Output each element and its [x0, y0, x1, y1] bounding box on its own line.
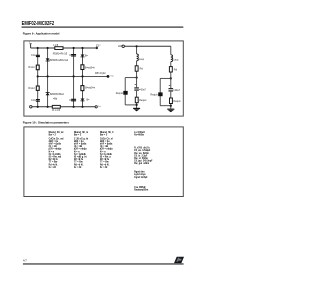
svg-text:dB2 = tju_: dB2 = tju_ — [74, 140, 86, 143]
svg-text:Rsl: Rsl — [140, 69, 144, 71]
svg-text:B=: B= — [85, 56, 89, 58]
svg-text:=42w7: =42w7 — [173, 90, 181, 92]
svg-text:Rsl: Rsl — [174, 69, 178, 71]
resistor R3 — [81, 65, 84, 70]
svg-text:dAF = tjuda: dAF = tjuda — [100, 143, 113, 146]
svg-text:L1 B: L1 B — [53, 44, 58, 47]
capacitor C2 — [36, 100, 40, 102]
bottom right terminal — [95, 106, 97, 108]
capacitor Cequiv1 — [134, 88, 139, 90]
bottom left terminal — [30, 106, 32, 108]
mic element left leg 2 — [159, 78, 161, 105]
right leg 1 wire — [136, 78, 138, 108]
header rule — [22, 27, 184, 28]
svg-text:dAF = tjuda: dAF = tjuda — [49, 143, 62, 146]
svg-text:R8=4=j2d: R8=4=j2d — [95, 72, 106, 75]
svg-text:EMIF02-MIC02F2: EMIF02-MIC02F2 — [22, 21, 55, 27]
resistor R2 — [36, 86, 39, 90]
branch MIC1 — [116, 45, 147, 111]
svg-text:C1w: C1w — [31, 100, 36, 102]
figure 9 frame — [24, 41, 183, 116]
svg-text:dAF = tjuda: dAF = tjuda — [74, 143, 87, 146]
bottom wire — [32, 106, 95, 108]
svg-text:Rgnd dim: Rgnd dim — [134, 172, 144, 174]
svg-text:=12: =12 — [69, 100, 74, 102]
split junction 1 — [136, 77, 138, 79]
svg-text:fu = 2d: fu = 2d — [49, 167, 57, 169]
svg-text:Requiv: Requiv — [150, 94, 158, 96]
diode D2 — [46, 93, 50, 96]
svg-text:C1w: C1w — [31, 55, 36, 57]
capacitor C3 — [71, 55, 76, 56]
resistor Rsl2 — [169, 67, 172, 72]
rejoin wire 1 — [125, 104, 136, 106]
svg-text:Bw = 2: Bw = 2 — [49, 134, 57, 136]
branch MIC2 — [150, 46, 181, 112]
svg-text:2w: 2w — [98, 106, 101, 108]
resistor R1 — [36, 65, 39, 70]
svg-text:Lsup: Lsup — [139, 59, 145, 61]
svg-text:=Bd: =Bd — [53, 98, 58, 100]
series ferrite top — [55, 47, 63, 50]
figure 10 frame — [24, 127, 183, 197]
rejoin wire 2 — [160, 105, 171, 107]
svg-text:rG = nB: rG = nB — [49, 145, 58, 148]
series box bottom — [52, 105, 60, 108]
svg-text:Figure 10 : Simulation paramet: Figure 10 : Simulation parameters — [23, 121, 70, 125]
svg-text:Rs=600m: Rs=600m — [134, 135, 144, 137]
ground 1 — [133, 107, 140, 109]
top wire — [31, 47, 97, 49]
parameter column 1 — [48, 131, 64, 169]
resistor Requiv1 — [135, 97, 138, 103]
svg-text:Requiv: Requiv — [116, 93, 124, 95]
mic element left leg 1 — [124, 78, 126, 105]
parameter column 4 — [134, 132, 153, 192]
resistor Requiv2 — [170, 98, 173, 104]
capacitor C4 — [71, 99, 76, 101]
svg-text:B 1 2 B: B 1 2 B — [52, 109, 60, 112]
svg-text:LIN: LIN — [118, 46, 122, 48]
svg-text:Requiv: Requiv — [173, 101, 181, 103]
inductor Lsupp1 — [137, 54, 139, 61]
svg-text:R5M1=Rh 1B: R5M1=Rh 1B — [53, 53, 68, 56]
svg-text:Vw: Vw — [110, 76, 113, 78]
svg-text:B=: B= — [87, 100, 91, 102]
svg-text:Bw = 2: Bw = 2 — [100, 134, 108, 136]
diode D4 — [81, 99, 85, 101]
svg-text:fS =dB g_ht: fS =dB g_ht — [74, 156, 87, 159]
branch diodes x48 — [47, 48, 49, 107]
svg-text:B=wd5=h: B=wd5=h — [85, 67, 96, 69]
svg-text:Bw = 2: Bw = 2 — [74, 134, 82, 136]
svg-text:fu = 2d: fu = 2d — [100, 167, 108, 169]
right top wire — [124, 45, 170, 47]
svg-text:Lsup: Lsup — [173, 60, 179, 62]
svg-text:Rw_gui a2km: Rw_gui a2km — [134, 163, 149, 165]
svg-text:Lgnd ohgs: Lgnd ohgs — [134, 174, 146, 176]
svg-text:Requiv: Requiv — [139, 100, 147, 102]
svg-text:Figure 9 : Application model: Figure 9 : Application model — [23, 32, 60, 36]
capacitor C1 — [36, 55, 40, 56]
middle wire — [38, 75, 108, 77]
svg-text:BZW06=BGd: BZW06=BGd — [50, 94, 64, 96]
capacitor Cequiv2 — [169, 89, 174, 91]
resistor Rsl1 — [135, 66, 138, 71]
svg-text:C JD nG g_ht: C JD nG g_ht — [74, 137, 89, 140]
ST logo — [174, 257, 184, 264]
parameter column 2 — [73, 131, 89, 169]
svg-text:=42w7: =42w7 — [139, 89, 147, 91]
svg-text:Nband_filt_wt: Nband_filt_wt — [49, 131, 64, 134]
svg-text:B=wd5=h: B=wd5=h — [85, 88, 96, 90]
branch chain x38 — [37, 48, 39, 107]
parameter column 3 — [99, 131, 114, 169]
svg-text:=12: =12 — [69, 55, 74, 57]
split junction 2 — [170, 77, 172, 79]
svg-text:rG = nB: rG = nB — [100, 145, 109, 148]
svg-text:R=wd: R=wd — [28, 88, 35, 90]
svg-text:4/7: 4/7 — [23, 259, 27, 263]
inductor Lsupp2 — [171, 55, 173, 62]
diode D1 — [46, 58, 50, 61]
svg-text:C0_gui 245.5nµF: C0_gui 245.5nµF — [134, 160, 153, 163]
right leg 2 wire — [170, 78, 172, 108]
branch D3 R3 x82.5 — [82, 48, 84, 107]
diode D3 — [81, 55, 85, 57]
svg-text:Nband_filt_3: Nband_filt_3 — [100, 131, 114, 134]
branch caps x74 — [73, 48, 75, 107]
svg-text:Rautamp50m: Rautamp50m — [134, 189, 148, 192]
svg-text:rG = nB: rG = nB — [74, 145, 83, 148]
svg-text:2: 2 — [99, 45, 101, 47]
output terminal 2 — [96, 47, 98, 49]
svg-text:fu = 2d: fu = 2d — [74, 167, 82, 169]
ground 2 — [167, 108, 174, 110]
svg-text:R=wd: R=wd — [28, 67, 35, 69]
footer rule — [23, 263, 184, 265]
svg-text:Rw_st 60dm: Rw_st 60dm — [134, 157, 148, 160]
svg-text:CdCin Cir_val: CdCin Cir_val — [49, 137, 64, 140]
svg-text:Nband_filt_m: Nband_filt_m — [74, 131, 88, 134]
svg-text:dB2 = tju_: dB2 = tju_ — [100, 140, 112, 143]
svg-text:BZW06=wBG=wd: BZW06=wBG=wd — [50, 60, 69, 62]
resistor R4 — [81, 86, 84, 91]
svg-text:dB2 = tju_: dB2 = tju_ — [49, 140, 61, 143]
input terminal 1 — [30, 44, 32, 48]
svg-text:Cgnd 1m5µF: Cgnd 1m5µF — [134, 177, 148, 179]
svg-text:C0_st 2.2µF: C0_st 2.2µF — [134, 154, 148, 157]
svg-text:CdCn Cir_vl: CdCn Cir_vl — [100, 137, 113, 140]
middle wire end dot — [107, 75, 110, 78]
